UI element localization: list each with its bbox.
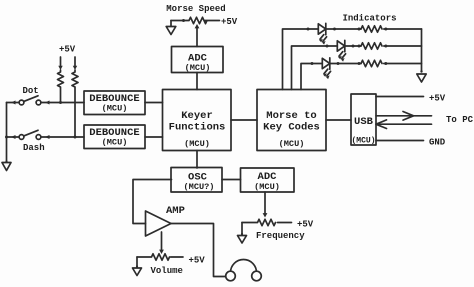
- block DEBOUNCE2: [84, 125, 145, 149]
- svg-text:To PC: To PC: [446, 115, 474, 125]
- LED D2: [326, 40, 355, 61]
- wire row1 right: [384, 28, 422, 30]
- ground speed pot: [166, 27, 176, 35]
- wire USB GND: [376, 140, 424, 142]
- svg-text:(MCU): (MCU): [184, 139, 210, 149]
- svg-text:+5V: +5V: [189, 256, 206, 266]
- potentiometer R-speed body: [171, 17, 220, 23]
- arrow dash left end: [11, 135, 16, 139]
- wire AMP volume wiper: [161, 232, 163, 251]
- svg-text:Functions: Functions: [169, 122, 226, 134]
- wire +5V stub R2: [74, 57, 76, 66]
- svg-text:Dot: Dot: [23, 86, 39, 96]
- svg-text:USB: USB: [354, 116, 374, 128]
- svg-text:(MCU?): (MCU?): [184, 182, 215, 192]
- resistor R4 row2: [358, 45, 361, 48]
- svg-text:+5V: +5V: [429, 94, 446, 104]
- ground volume: [136, 265, 138, 267]
- wire OSC to AMP: [133, 180, 172, 224]
- svg-text:Dash: Dash: [23, 143, 45, 153]
- svg-text:+5V: +5V: [59, 45, 76, 55]
- wire OSC to ADC2: [222, 179, 241, 181]
- svg-text:(MCU): (MCU): [279, 139, 305, 149]
- ground freq: [241, 233, 243, 235]
- svg-text:GND: GND: [429, 138, 446, 148]
- wire dot-right: [41, 102, 84, 104]
- wire indicator feed 1: [283, 29, 309, 90]
- svg-text:+5V: +5V: [221, 17, 238, 27]
- wire row1 mid: [335, 28, 362, 30]
- svg-text:(MCU): (MCU): [102, 138, 128, 148]
- wire indicator common vertical: [421, 29, 423, 72]
- block Keyer Functions U-keyer: [163, 90, 232, 151]
- svg-text:Key Codes: Key Codes: [263, 122, 320, 134]
- arrow To PC out: [403, 112, 414, 121]
- wire row2 mid: [353, 45, 361, 47]
- resistor R3 row1: [358, 28, 361, 31]
- wire To PC out: [376, 115, 432, 117]
- wire volume left drop: [136, 257, 138, 268]
- potentiometer R-freq: [242, 219, 292, 225]
- wire To PC in: [376, 123, 432, 125]
- arrow dot left end: [11, 101, 16, 105]
- wire DEBOUNCE2 to Keyer: [145, 136, 163, 138]
- wire USB +5V: [376, 96, 424, 98]
- arrow dash wire: [45, 135, 50, 139]
- wiper arrow up: [195, 24, 200, 28]
- wire ADC to Keyer: [196, 73, 198, 90]
- wire AMP out to phones: [171, 224, 226, 277]
- wire indicator feed 3: [301, 64, 312, 90]
- ground indicators: [420, 70, 422, 72]
- svg-text:Indicators: Indicators: [342, 14, 396, 24]
- arrow down R2: [73, 66, 77, 70]
- arrow freq wiper down: [263, 213, 268, 217]
- wire indicator feed 2: [292, 46, 328, 90]
- block OSC: [171, 168, 222, 193]
- svg-text:(MCU): (MCU): [185, 63, 211, 73]
- svg-text:+5V: +5V: [297, 220, 314, 230]
- headphones J1: [231, 260, 257, 273]
- arrow down R1: [58, 66, 62, 70]
- wire +5V stub R1: [60, 57, 62, 66]
- svg-text:(MCU): (MCU): [351, 137, 375, 146]
- wire row3 right: [384, 63, 422, 65]
- ground left bus: [5, 160, 7, 162]
- wire dot-left: [7, 102, 20, 104]
- svg-text:Morse to: Morse to: [266, 110, 316, 122]
- arrow volume wiper down: [159, 250, 164, 254]
- wire speed pot left drop: [170, 21, 172, 27]
- wire Keyer to OSC: [196, 151, 198, 169]
- svg-text:Morse Speed: Morse Speed: [166, 4, 225, 14]
- arrow dot wire: [45, 101, 50, 105]
- wire ADC2 to freq pot: [264, 192, 266, 214]
- svg-text:(MCU): (MCU): [254, 182, 280, 192]
- junction dot R1-bottom: [59, 101, 62, 104]
- LED D3: [311, 58, 340, 79]
- wire Morse to USB: [326, 119, 351, 121]
- svg-text:Keyer: Keyer: [181, 110, 213, 122]
- LED D1: [307, 23, 337, 44]
- switch SW-dot: [19, 100, 24, 105]
- block Morse to Key Codes U-morse: [257, 90, 326, 151]
- svg-text:AMP: AMP: [166, 205, 185, 217]
- block DEBOUNCE1: [84, 91, 145, 115]
- junction dot left bus: [5, 136, 8, 139]
- potentiometer R-volume: [137, 254, 183, 260]
- wire DEBOUNCE1 to Keyer: [145, 102, 163, 104]
- junction dot R2-bottom: [74, 136, 77, 139]
- arrow To PC in: [376, 120, 387, 129]
- wire dash-right: [41, 136, 84, 138]
- svg-text:Frequency: Frequency: [256, 231, 305, 241]
- svg-text:Volume: Volume: [151, 266, 183, 276]
- wire speed wiper: [196, 27, 198, 47]
- block ADC (bottom) U-adc2: [241, 168, 295, 192]
- block ADC (top) U-adc1: [172, 47, 224, 73]
- wire dash-left: [7, 136, 20, 138]
- resistor R5 row3: [358, 62, 361, 65]
- wire freq left drop: [241, 223, 243, 236]
- switch SW-dash: [19, 135, 24, 140]
- block USB U-usb: [351, 94, 376, 145]
- resistor R2 (dash pullup): [72, 70, 78, 137]
- op-amp AMP: [146, 211, 172, 236]
- wire left bus vertical: [6, 103, 8, 162]
- wire row2 right: [384, 45, 422, 47]
- wire row3 mid: [338, 63, 361, 65]
- resistor R1 (dot pullup): [58, 70, 64, 103]
- svg-text:(MCU): (MCU): [102, 104, 128, 114]
- junction dot speed-left: [182, 19, 185, 22]
- wire Keyer to Morse block: [231, 119, 257, 121]
